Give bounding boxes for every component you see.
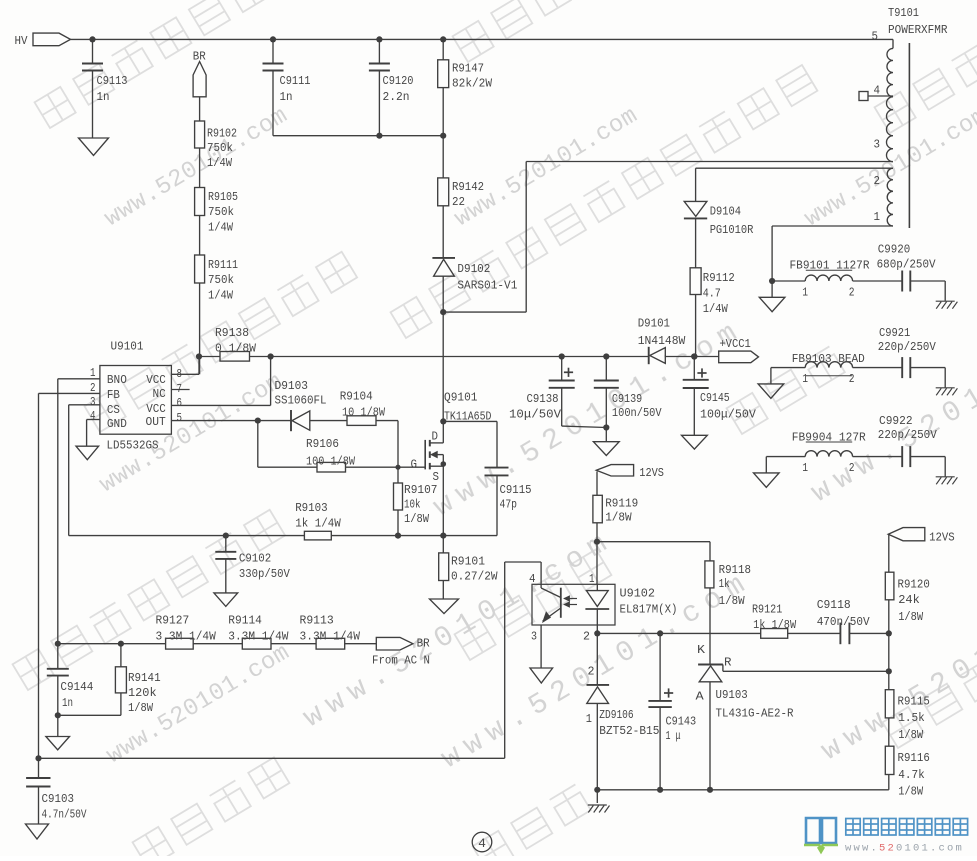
svg-text:24k: 24k [898,593,920,607]
svg-text:4: 4 [874,84,881,98]
svg-text:750k: 750k [208,205,234,219]
svg-text:1: 1 [874,210,881,224]
svg-text:100μ/50V: 100μ/50V [700,407,756,421]
svg-text:Q9101: Q9101 [444,391,478,405]
svg-text:4: 4 [478,836,486,851]
svg-text:680p/250V: 680p/250V [877,258,937,272]
svg-text:C9920: C9920 [878,242,911,256]
svg-text:VCC: VCC [146,402,166,416]
svg-text:R9118: R9118 [719,563,751,577]
svg-text:1/8W: 1/8W [605,511,632,525]
svg-text:1k 1/4W: 1k 1/4W [295,517,341,531]
svg-text:3.3M 1/4W: 3.3M 1/4W [300,630,361,644]
svg-text:PG1010R: PG1010R [710,223,754,237]
svg-text:C9922: C9922 [879,414,913,428]
svg-text:1/8W: 1/8W [719,594,746,608]
svg-text:TL431G-AE2-R: TL431G-AE2-R [716,707,795,721]
svg-text:HV: HV [15,34,29,48]
svg-text:C9921: C9921 [879,326,910,340]
svg-text:C9143: C9143 [666,714,697,728]
svg-text:0.27/2W: 0.27/2W [451,570,498,584]
svg-text:VCC: VCC [146,373,166,387]
svg-text:R9138: R9138 [215,326,249,340]
svg-text:C9138: C9138 [527,392,559,406]
svg-text:4.7n/50V: 4.7n/50V [42,808,87,822]
svg-text:OUT: OUT [146,415,166,429]
svg-text:POWERXFMR: POWERXFMR [888,23,948,37]
svg-text:4.7k: 4.7k [898,768,925,782]
svg-text:220p/250V: 220p/250V [878,340,937,354]
svg-text:R9113: R9113 [300,613,334,627]
svg-text:1: 1 [802,285,808,299]
svg-text:K: K [697,643,706,657]
svg-text:100 1/8W: 100 1/8W [306,454,356,468]
svg-text:D9103: D9103 [275,379,309,393]
svg-text:22: 22 [452,195,465,209]
svg-text:EL817M(X): EL817M(X) [620,603,678,617]
svg-text:R9104: R9104 [340,390,373,404]
svg-text:5: 5 [872,30,879,44]
svg-text:FB9101 1127R: FB9101 1127R [790,259,871,273]
svg-text:R9121: R9121 [752,603,782,617]
svg-text:10 1/8W: 10 1/8W [342,406,386,420]
svg-text:R9119: R9119 [605,497,638,511]
svg-text:220p/250V: 220p/250V [878,428,938,442]
svg-text:1: 1 [802,372,808,386]
svg-text:R9105: R9105 [208,190,238,204]
svg-text:R9111: R9111 [208,258,238,272]
svg-text:12VS: 12VS [639,466,664,480]
svg-text:U9102: U9102 [620,587,656,601]
svg-text:1/8W: 1/8W [404,512,430,526]
svg-text:1.5k: 1.5k [898,711,925,725]
svg-text:LD5532GS: LD5532GS [107,439,159,453]
svg-text:FB9904 127R: FB9904 127R [792,431,867,445]
svg-text:BZT52-B15: BZT52-B15 [599,724,659,738]
svg-text:R9142: R9142 [452,180,484,194]
svg-text:2: 2 [849,372,855,386]
svg-text:R9141: R9141 [128,671,161,685]
svg-text:SS1060FL: SS1060FL [275,393,327,407]
svg-text:CS: CS [107,403,120,417]
svg-text:2: 2 [849,461,855,475]
svg-text:330p/50V: 330p/50V [239,567,291,581]
svg-text:1n: 1n [62,696,73,710]
svg-text:2: 2 [588,665,595,679]
svg-text:C9102: C9102 [239,551,271,565]
svg-text:2: 2 [874,174,881,188]
svg-text:SARS01-V1: SARS01-V1 [457,279,517,293]
svg-text:5: 5 [177,411,183,425]
svg-text:750k: 750k [208,273,234,287]
svg-text:G: G [411,458,418,472]
svg-text:1/8W: 1/8W [898,728,923,742]
svg-text:C9118: C9118 [817,598,851,612]
svg-text:1/4W: 1/4W [208,289,234,303]
svg-text:4.7: 4.7 [703,287,721,301]
svg-text:1/4W: 1/4W [207,156,233,170]
svg-text:R9147: R9147 [452,62,484,76]
svg-text:C9139: C9139 [612,392,642,406]
svg-text:R: R [724,655,732,669]
svg-text:C9113: C9113 [97,74,128,88]
svg-text:R9115: R9115 [898,695,930,709]
svg-text:R9112: R9112 [703,271,735,285]
svg-text:D: D [432,430,439,444]
svg-text:FB9103 BEAD: FB9103 BEAD [792,352,865,366]
svg-text:1n: 1n [97,90,110,104]
svg-text:1/8W: 1/8W [898,784,923,798]
svg-text:R9120: R9120 [898,578,930,592]
svg-text:C9120: C9120 [383,74,414,88]
svg-text:www.520101.com: www.520101.com [845,843,964,855]
svg-text:R9127: R9127 [156,613,190,627]
svg-text:1/4W: 1/4W [703,302,729,316]
svg-text:10μ/50V: 10μ/50V [509,407,562,421]
svg-text:0 1/8W: 0 1/8W [215,342,257,356]
svg-text:BNO: BNO [107,373,127,387]
svg-text:82k/2W: 82k/2W [452,77,493,91]
svg-text:1: 1 [586,712,592,726]
svg-text:D9104: D9104 [710,204,741,218]
svg-text:47p: 47p [500,498,518,512]
svg-text:C9145: C9145 [700,391,730,405]
svg-text:R9114: R9114 [228,613,262,627]
svg-text:C9144: C9144 [60,680,93,694]
svg-text:A: A [696,690,705,704]
svg-text:120k: 120k [128,686,157,700]
svg-text:R9106: R9106 [306,437,339,451]
svg-text:4: 4 [90,409,96,423]
svg-text:C9115: C9115 [500,483,532,497]
svg-text:BR: BR [417,637,431,651]
svg-text:1/8W: 1/8W [128,701,154,715]
svg-text:D9102: D9102 [457,262,490,276]
svg-text:1N4148W: 1N4148W [638,334,686,348]
svg-text:1: 1 [802,461,808,475]
svg-text:C9103: C9103 [42,792,75,806]
svg-text:R9103: R9103 [295,501,328,515]
svg-text:1: 1 [589,572,595,586]
svg-text:10k: 10k [404,498,421,512]
svg-text:GND: GND [107,417,127,431]
svg-text:2: 2 [583,630,590,644]
svg-text:8: 8 [177,367,183,381]
svg-text:FB: FB [107,388,120,402]
svg-text:1n: 1n [280,90,293,104]
svg-text:S: S [433,470,440,484]
svg-text:D9101: D9101 [638,317,670,331]
svg-text:6: 6 [177,396,183,410]
svg-text:R9102: R9102 [207,127,237,141]
svg-text:U9103: U9103 [716,688,748,702]
svg-text:1/8W: 1/8W [898,610,923,624]
svg-text:NC: NC [153,387,166,401]
svg-text:12VS: 12VS [929,531,955,545]
svg-text:2.2n: 2.2n [383,90,410,104]
svg-text:T9101: T9101 [888,6,919,20]
svg-text:2: 2 [849,285,855,299]
svg-text:C9111: C9111 [280,74,311,88]
svg-text:U9101: U9101 [111,340,144,354]
svg-text:R9116: R9116 [898,751,930,765]
svg-text:1k: 1k [719,577,730,591]
svg-text:3: 3 [874,138,881,152]
svg-text:From AC N: From AC N [372,654,430,668]
svg-text:470n/50V: 470n/50V [817,615,871,629]
svg-text:1: 1 [90,366,96,380]
svg-text:1 μ: 1 μ [666,729,681,743]
svg-text:750k: 750k [207,141,233,155]
svg-text:1k 1/8W: 1k 1/8W [753,618,797,632]
svg-text:3.3M 1/4W: 3.3M 1/4W [228,630,289,644]
svg-text:1/4W: 1/4W [208,221,234,235]
svg-text:R9101: R9101 [451,555,485,569]
svg-text:3: 3 [531,630,537,644]
svg-text:ZD9106: ZD9106 [599,708,633,722]
svg-text:3: 3 [90,395,96,409]
svg-text:100n/50V: 100n/50V [612,406,662,420]
svg-text:R9107: R9107 [404,483,438,497]
svg-text:4: 4 [529,572,536,586]
svg-text:+VCC1: +VCC1 [719,337,750,351]
svg-text:3.3M 1/4W: 3.3M 1/4W [156,630,217,644]
